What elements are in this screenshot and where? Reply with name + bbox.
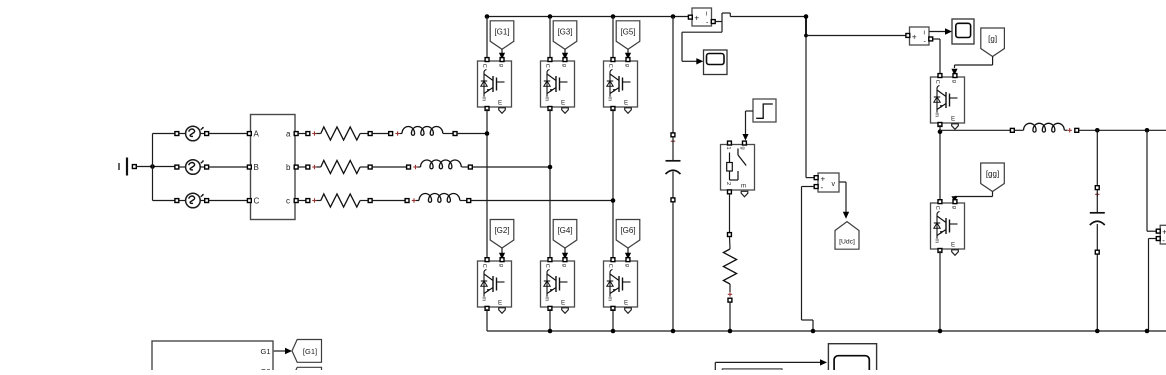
step block bbox=[753, 99, 776, 122]
wire phase c bbox=[298, 200, 306, 202]
svg-text:C: C bbox=[481, 264, 487, 268]
wire i2 to scope bbox=[929, 28, 952, 34]
svg-text:E: E bbox=[561, 300, 565, 307]
svg-text:m: m bbox=[481, 97, 487, 102]
igbt G3 upper bbox=[541, 58, 575, 114]
wire bbox=[486, 309, 488, 331]
pulse block partial bbox=[722, 369, 782, 375]
igbt chopper upper bbox=[931, 74, 965, 130]
svg-text:b: b bbox=[286, 163, 291, 172]
goto tag [G2] partial bbox=[292, 367, 322, 375]
svg-text:m: m bbox=[544, 297, 550, 302]
svg-text:E: E bbox=[951, 242, 955, 249]
wire bbox=[209, 133, 250, 135]
svg-text:g: g bbox=[951, 206, 957, 209]
wire bbox=[486, 17, 488, 59]
scope Scope3 partial bbox=[828, 344, 876, 375]
ideal switch bbox=[721, 141, 755, 197]
svg-text:m: m bbox=[607, 97, 613, 102]
svg-text:g: g bbox=[498, 64, 504, 67]
svg-text:g: g bbox=[740, 147, 746, 150]
capacitor C2 bbox=[1090, 130, 1105, 331]
svg-text:[G3]: [G3] bbox=[557, 27, 572, 36]
svg-text:[Udc]: [Udc] bbox=[839, 239, 855, 246]
svg-text:[g]: [g] bbox=[988, 35, 997, 44]
svg-text:1: 1 bbox=[725, 147, 731, 150]
svg-text:B: B bbox=[254, 163, 259, 172]
from tag [G3] bbox=[553, 21, 577, 50]
from tag [g] bbox=[981, 28, 1005, 57]
igbt G5 upper bbox=[604, 58, 638, 114]
svg-text:C: C bbox=[544, 264, 550, 268]
wire load return bbox=[1149, 239, 1157, 332]
svg-text:i: i bbox=[924, 30, 925, 37]
wire bbox=[939, 251, 941, 331]
wire meter1 out / bus jog bbox=[715, 13, 730, 32]
wire DC+ to voltmeter bbox=[806, 17, 814, 178]
svg-text:g: g bbox=[561, 264, 567, 267]
svg-text:+: + bbox=[912, 32, 917, 42]
svg-text:[gg]: [gg] bbox=[986, 170, 999, 179]
node phase junction bbox=[485, 131, 490, 136]
ac source Vc bbox=[175, 193, 209, 208]
wire bbox=[549, 17, 551, 59]
resistor R3 series bbox=[306, 194, 372, 207]
svg-text:[G1]: [G1] bbox=[303, 347, 317, 356]
scope Scope2 bbox=[952, 19, 974, 44]
svg-text:A: A bbox=[254, 130, 260, 139]
capacitor C1 DC link bbox=[666, 17, 681, 332]
wire chopper mid to L2 bbox=[940, 129, 1011, 131]
svg-text:g: g bbox=[498, 264, 504, 267]
node bbox=[1095, 128, 1149, 133]
svg-text:i: i bbox=[706, 11, 707, 18]
svg-text:g: g bbox=[624, 64, 630, 67]
wire bbox=[472, 166, 550, 168]
svg-text:C: C bbox=[607, 264, 613, 268]
svg-text:c: c bbox=[286, 197, 290, 206]
svg-text:[G5]: [G5] bbox=[620, 27, 635, 36]
current measurement I1 bbox=[688, 8, 715, 27]
wire gate arrow bbox=[562, 248, 568, 259]
svg-text:C: C bbox=[481, 64, 487, 68]
svg-text:C: C bbox=[544, 64, 550, 68]
wire meter2 to igbt C bbox=[933, 39, 940, 74]
wire bus to V-branch bbox=[730, 16, 806, 18]
svg-text:G1: G1 bbox=[261, 347, 271, 356]
from tag [G2] bbox=[490, 220, 514, 249]
svg-text:E: E bbox=[561, 100, 565, 107]
scope Scope1 bbox=[704, 50, 728, 75]
svg-text:m: m bbox=[481, 297, 487, 302]
svg-text:a: a bbox=[286, 130, 291, 139]
ac source Va bbox=[175, 126, 209, 141]
wire v out to Udc tag bbox=[839, 182, 849, 219]
svg-text:m: m bbox=[607, 297, 613, 302]
svg-text:[G2]: [G2] bbox=[494, 226, 509, 235]
wire bottom DC bus bbox=[487, 330, 1166, 332]
wire to load measurement bbox=[1147, 130, 1156, 231]
node source-bus junction bbox=[150, 164, 155, 169]
wire bbox=[549, 309, 551, 331]
svg-text:m: m bbox=[544, 97, 550, 102]
wire phase a bbox=[298, 133, 306, 135]
wire bbox=[209, 200, 250, 202]
wire step to switch gate bbox=[742, 111, 753, 141]
wire g tag to gate bbox=[951, 57, 992, 76]
resistor R2 series bbox=[306, 160, 372, 173]
wire gate arrow bbox=[625, 49, 631, 59]
svg-text:2: 2 bbox=[725, 182, 731, 185]
svg-text:C: C bbox=[934, 80, 940, 84]
wire bbox=[939, 125, 941, 202]
current measurement I2 bbox=[906, 27, 933, 46]
node bbox=[938, 129, 943, 134]
svg-text:E: E bbox=[624, 100, 628, 107]
svg-text:m: m bbox=[741, 183, 746, 190]
svg-text:C: C bbox=[607, 64, 613, 68]
wire bbox=[209, 166, 250, 168]
from tag [G1] bbox=[490, 21, 514, 50]
svg-text:-: - bbox=[821, 183, 824, 192]
svg-text:C: C bbox=[934, 206, 940, 210]
node bbox=[485, 14, 676, 19]
svg-text:-: - bbox=[1162, 236, 1165, 245]
node phase junction bbox=[611, 198, 616, 203]
three-phase V-I measurement block bbox=[247, 115, 298, 220]
igbt chopper lower bbox=[931, 200, 965, 256]
wire bbox=[1079, 129, 1166, 131]
wire bbox=[486, 109, 488, 259]
node bbox=[804, 14, 809, 37]
goto tag [G1] bbox=[292, 340, 322, 363]
wire bbox=[372, 133, 389, 135]
wire bbox=[612, 17, 614, 59]
wire gate arrow bbox=[499, 49, 505, 59]
from tag [G4] bbox=[553, 220, 577, 249]
node bbox=[548, 329, 1150, 334]
load measurement block (edge) bbox=[1156, 225, 1166, 245]
node phase junction bbox=[548, 165, 553, 170]
wire gate arrow bbox=[562, 49, 568, 59]
inductor L3 series bbox=[405, 194, 471, 203]
svg-text:v: v bbox=[832, 181, 836, 188]
wire bbox=[549, 109, 551, 259]
svg-text:g: g bbox=[951, 80, 957, 83]
inductor L2 bbox=[1010, 123, 1078, 132]
svg-text:E: E bbox=[498, 100, 502, 107]
wire bbox=[612, 109, 614, 259]
igbt G6 lower bbox=[604, 258, 638, 314]
wire voltmeter minus to bus bbox=[802, 187, 815, 332]
igbt G4 lower bbox=[541, 258, 575, 314]
resistor R1 series bbox=[306, 127, 372, 140]
voltage measurement Vdc bbox=[814, 173, 839, 192]
svg-text:[G6]: [G6] bbox=[620, 226, 635, 235]
wire to scope3 bbox=[715, 359, 827, 370]
wire to goto G1 bbox=[274, 348, 292, 354]
igbt G1 upper bbox=[478, 58, 512, 114]
svg-text:[G4]: [G4] bbox=[557, 226, 572, 235]
from tag [gg] bbox=[981, 163, 1005, 192]
svg-text:[G1]: [G1] bbox=[494, 27, 509, 36]
resistor R2 brake bbox=[723, 249, 736, 331]
wire bbox=[457, 133, 487, 135]
wire bbox=[471, 200, 613, 202]
svg-text:m: m bbox=[934, 239, 940, 244]
from tag [G5] bbox=[616, 21, 640, 50]
ac source Vb bbox=[175, 160, 209, 175]
from tag [G6] bbox=[616, 220, 640, 249]
wire i1 to scope bbox=[682, 32, 722, 64]
ground bbox=[119, 158, 136, 176]
wire bbox=[153, 134, 177, 201]
wire gate arrow bbox=[625, 248, 631, 259]
wire top DC bus bbox=[487, 16, 690, 18]
wire bbox=[372, 166, 407, 168]
goto tag [Udc] bbox=[835, 222, 859, 250]
svg-text:E: E bbox=[951, 116, 955, 123]
svg-text:m: m bbox=[934, 113, 940, 118]
svg-text:C: C bbox=[254, 197, 260, 206]
svg-text:g: g bbox=[561, 64, 567, 67]
wire to I2 meter bbox=[806, 35, 908, 37]
wire bbox=[612, 309, 614, 331]
wire switch to R2 bbox=[728, 194, 732, 249]
svg-text:g: g bbox=[624, 264, 630, 267]
wire phase b bbox=[298, 166, 306, 168]
svg-text:E: E bbox=[624, 300, 628, 307]
wire bbox=[136, 166, 176, 168]
inductor L2 series bbox=[407, 160, 473, 169]
igbt G2 lower bbox=[478, 258, 512, 314]
inductor L1 series bbox=[389, 126, 457, 135]
wire gg tag to gate bbox=[951, 192, 992, 202]
wire gate arrow bbox=[499, 248, 505, 259]
wire bbox=[372, 200, 405, 202]
svg-text:E: E bbox=[498, 300, 502, 307]
control subsystem bbox=[152, 341, 273, 375]
svg-text:+: + bbox=[694, 13, 699, 23]
